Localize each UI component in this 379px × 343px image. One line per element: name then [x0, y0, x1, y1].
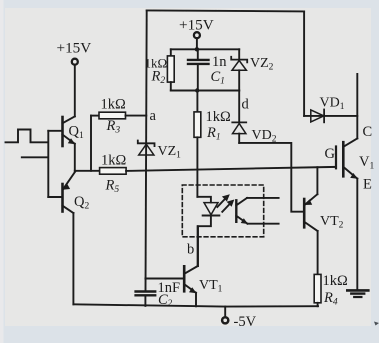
wire: VZ2/VD2 vertical (node d)	[238, 91, 240, 123]
svg-text:d: d	[242, 97, 250, 113]
optocoupler dashed box	[182, 185, 263, 237]
wire: bottom rail	[73, 304, 318, 306]
diode VD2	[232, 122, 246, 142]
svg-text:-5V: -5V	[234, 314, 257, 330]
node: junction dot bottom rail	[195, 88, 199, 92]
wire: emitter output node to R6	[75, 170, 100, 172]
svg-text:E: E	[363, 177, 372, 193]
wire: snubber bottom rail	[171, 90, 239, 92]
transistor Q1	[48, 116, 75, 171]
wire: jog into optocoupler LED	[197, 197, 211, 203]
resistor R1	[194, 91, 201, 197]
IGBT V1	[336, 74, 358, 289]
zener VZ1	[138, 141, 155, 156]
wire: snubber top rail	[171, 48, 239, 50]
svg-text:a: a	[150, 108, 157, 124]
svg-text:+15V: +15V	[57, 40, 92, 57]
svg-text:1kΩ: 1kΩ	[206, 109, 232, 125]
LED inside optocoupler	[198, 203, 219, 266]
node: junction dot top rail	[195, 47, 199, 51]
wire: lower input stub	[22, 156, 48, 158]
wire: big box top border	[147, 10, 304, 11]
resistor R3	[99, 112, 126, 119]
phototransistor	[236, 198, 278, 224]
transistor Q2 (PNP)	[48, 172, 75, 305]
wire: R3 left lead down	[90, 116, 92, 171]
svg-text:G: G	[325, 146, 336, 162]
LED emission arrows	[217, 194, 234, 212]
diode VD1	[304, 110, 357, 123]
zener VZ2	[231, 49, 247, 90]
wire: VD1 drop from top border	[303, 11, 305, 116]
resistor R6	[100, 168, 127, 175]
svg-text:C: C	[363, 124, 373, 140]
+15V terminal (top middle)	[194, 32, 200, 49]
input square wave symbol	[6, 130, 48, 143]
wire: left main vertical (node a / VZ1 line)	[146, 10, 147, 290]
svg-text:b: b	[187, 242, 194, 258]
-5V terminal	[222, 307, 228, 324]
resistor R4	[314, 274, 321, 306]
wire: Q1 Q2 common base vertical	[47, 131, 49, 197]
svg-text:1n: 1n	[212, 54, 227, 70]
transistor VT2 (PNP)	[304, 167, 317, 274]
+15V terminal (left)	[72, 59, 78, 117]
ground symbol	[347, 290, 368, 297]
svg-text:+15V: +15V	[179, 17, 214, 34]
wire: R3 to node a	[126, 115, 147, 117]
wire: main horizontal G line	[126, 167, 336, 171]
capacitor C2	[136, 292, 156, 296]
left pale strip	[0, 0, 4, 343]
resistor R2	[167, 49, 174, 90]
wire: VD2 to VT2 base	[239, 143, 304, 212]
tiny cursor mark bottom right	[374, 322, 379, 326]
transistor VT1	[145, 226, 197, 306]
capacitor C1	[188, 49, 209, 90]
svg-text:1kΩ: 1kΩ	[101, 153, 127, 169]
svg-text:1kΩ: 1kΩ	[101, 97, 127, 113]
svg-text:1kΩ: 1kΩ	[323, 273, 349, 289]
